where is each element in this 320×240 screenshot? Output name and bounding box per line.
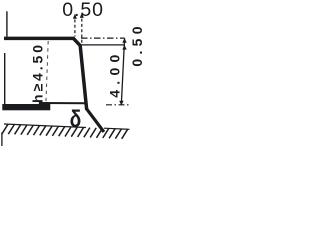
wire: hatch band top edge line [4,124,86,128]
wire: left dimension line lower segment [4,53,6,104]
wire: top 0.50 right leader (dashed) [81,19,83,45]
wire: weld/fillet diagonal leg [86,108,104,132]
node: right dim arrowhead at bottom level (down) [119,101,123,106]
wire: dash-dot extension of top surface to the right [81,37,125,39]
node: bottom thick bar [2,104,50,110]
node: right dim arrowhead at top surface level (up) [122,38,126,43]
node: top 0.50 left arrowhead [73,14,77,19]
svg-text:0.50: 0.50 [129,22,145,66]
node: right dim arrowhead at chamfer level (up) [122,45,126,50]
svg-text:h≥4.50: h≥4.50 [30,42,46,103]
wire: right vertical dimension line [121,38,124,105]
node: top 0.50 right arrowhead [80,13,84,18]
wire: small frame tick bottom-left [1,133,3,147]
node: plate outline (top surface, chamfer, tapered edge) [4,38,87,109]
svg-text:4.00: 4.00 [107,49,123,97]
wire: left dimension line upper segment [6,11,8,36]
wire: bottom thin surface line [39,102,87,104]
wire: top 0.50 left leader (dashed) [74,20,76,37]
svg-text:δ: δ [70,105,82,133]
node: hatching of base material [2,124,128,139]
wire: dash-dot extension of bottom surface to the right [106,104,130,106]
wire: hidden edge dashed line above bar end [46,41,48,103]
wire: thin extension line at chamfer bottom level [82,44,125,46]
